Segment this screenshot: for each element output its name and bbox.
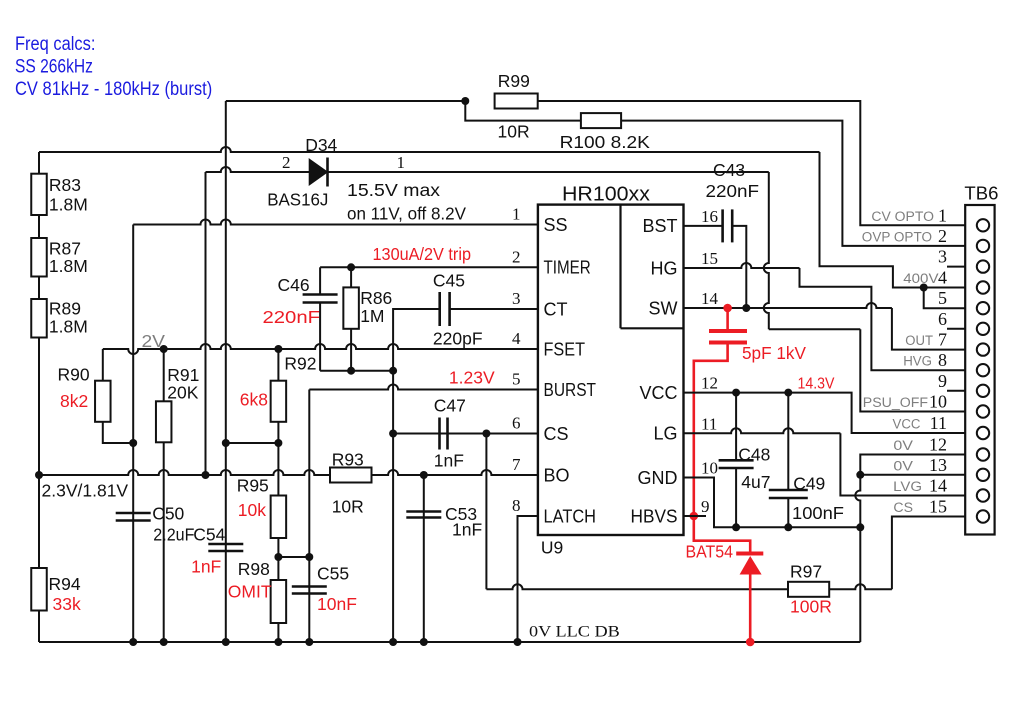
terminal TB6 pin 2 circle (977, 240, 989, 252)
svg-text:1: 1 (397, 153, 406, 172)
wire D34 cathode to right (328, 171, 769, 173)
junction C47 right (482, 430, 490, 438)
net label CV OPTO at TB6 pin 1 (gray) (871, 209, 934, 224)
terminal TB6 pin 3 number (938, 247, 947, 267)
pin label LATCH (pin 8) (544, 506, 597, 526)
junction 0V pins 12-13 (856, 471, 864, 479)
net label 0V at TB6 pin 13 (gray) (893, 458, 913, 473)
wire BAT54 anode to 0V rail (749, 575, 752, 643)
wire C47 left column to 0V rail (392, 434, 394, 643)
wire C46/R86/C45 bottom rail (320, 370, 393, 372)
svg-text:220nF: 220nF (706, 181, 760, 201)
wire R92 bottom to junction (277, 422, 279, 443)
svg-text:LATCH: LATCH (544, 506, 597, 526)
wire C48 bottom leg (735, 468, 737, 527)
svg-text:13: 13 (929, 455, 947, 475)
wire R86 top stub (350, 267, 352, 287)
wire R90 top leg (102, 349, 104, 381)
capacitor C43 (723, 209, 733, 242)
note CV frequency (blue) (15, 79, 212, 100)
svg-text:11: 11 (930, 413, 947, 433)
svg-text:U9: U9 (541, 538, 563, 558)
wire C46 bottom vertical (319, 303, 321, 371)
wire C53 vertical (423, 475, 425, 642)
label R90 (58, 365, 90, 385)
svg-text:BO: BO (544, 465, 570, 485)
svg-text:10R: 10R (332, 497, 364, 517)
svg-text:15.5V max: 15.5V max (347, 180, 440, 200)
terminal TB6 pin 12 number (929, 435, 947, 455)
value R87 1.8M (49, 256, 88, 276)
value R99 10R (498, 122, 530, 142)
svg-text:2: 2 (938, 226, 947, 246)
wire C49 bottom leg (787, 498, 789, 527)
svg-text:R83: R83 (49, 175, 81, 195)
wire R90 bottom leg to SS net (103, 422, 133, 443)
svg-text:1: 1 (512, 205, 521, 224)
note freq calcs (blue) (15, 34, 95, 55)
terminal TB6 pin 1 circle (977, 219, 989, 231)
svg-text:R94: R94 (49, 574, 81, 594)
wire R99 feed from column (226, 100, 465, 102)
svg-text:14: 14 (701, 289, 719, 308)
value R93 10R (332, 497, 364, 517)
wire 0V TB pins 12-13 column (855, 455, 965, 643)
label C48 (738, 445, 770, 465)
wire TIMER pin 2 (320, 266, 538, 268)
junction ground rail to 0V column (856, 523, 864, 531)
value C53 1nF (452, 520, 482, 540)
terminal TB6 pin 4 number (938, 268, 947, 288)
net label OVP OPTO at TB6 pin 2 (gray) (862, 229, 932, 244)
wire BURST pin 5 (309, 385, 538, 390)
value C50 2.2uF (153, 525, 194, 545)
net label VCC at TB6 pin 11 (gray) (893, 417, 921, 432)
terminal TB6 pin 15 number (929, 497, 947, 517)
terminal TB6 pin 1 number (938, 205, 947, 225)
pin number 14 (701, 289, 719, 308)
wire R91 bottom to 0V rail (163, 442, 165, 642)
note 130uA/2V trip (red) (373, 244, 472, 264)
pin number 8 (512, 496, 521, 515)
label R93 (332, 450, 364, 470)
label 2V (gray) (142, 331, 166, 351)
svg-text:C47: C47 (434, 396, 466, 416)
wire R99-R100 connector (465, 101, 581, 121)
terminal TB6 pin 14 circle (977, 489, 989, 501)
wire HG pin 15 staircase to HVG (684, 263, 966, 370)
value C47 1nF (434, 451, 464, 471)
svg-text:7: 7 (512, 455, 521, 474)
wire C47 right column down to R97 (485, 434, 487, 590)
svg-text:1nF: 1nF (452, 520, 482, 540)
note 15.5V max (347, 180, 440, 200)
label D34 (305, 135, 337, 155)
capacitor C46 (303, 295, 338, 303)
resistor R92 (271, 381, 287, 422)
svg-text:SS: SS (544, 215, 568, 235)
junction R90 bottom to SS net (129, 439, 137, 447)
svg-text:SS 266kHz: SS 266kHz (15, 57, 93, 78)
pin label CS (pin 6) (544, 424, 569, 444)
svg-text:5: 5 (512, 370, 521, 389)
svg-text:C43: C43 (713, 160, 745, 180)
pin label BO (pin 7) (544, 465, 570, 485)
terminal TB6 pin 5 number (938, 288, 947, 308)
capacitor C53 (406, 512, 441, 518)
junction R99 left node (461, 97, 469, 105)
value C48 4u7 (741, 472, 770, 492)
net label LVG at TB6 pin 14 (gray) (893, 479, 922, 494)
value C54 1nF (red) (191, 557, 221, 577)
wire TB6 pin 3 stub (947, 266, 965, 268)
wire SW pin 14 staircase to OUT (684, 303, 966, 350)
svg-text:8: 8 (938, 350, 947, 370)
wire BO pin 7 rail left segment (39, 470, 330, 475)
capacitor C45 (440, 292, 450, 326)
terminal TB6 pin 5 circle (977, 302, 989, 314)
resistor R97 (788, 582, 829, 597)
value R83 1.8M (49, 195, 88, 215)
junction R92 bottom (274, 439, 282, 447)
svg-text:1.8M: 1.8M (49, 256, 88, 276)
wire R95 bottom to C55 top (278, 556, 309, 558)
label C55 (317, 564, 349, 584)
svg-text:HR100xx: HR100xx (562, 183, 651, 206)
value C43 220nF (706, 181, 760, 201)
terminal TB6 pin 10 number (929, 392, 947, 412)
label U9 (541, 538, 563, 558)
terminal TB6 pin 8 circle (977, 364, 989, 376)
svg-text:10R: 10R (498, 122, 530, 142)
junction R91 top (160, 345, 168, 353)
label R91 (167, 365, 199, 385)
terminal TB6 pin 7 circle (977, 343, 989, 355)
svg-text:OMIT: OMIT (228, 582, 272, 602)
pin label VCC (pin 12) (639, 383, 677, 403)
wire R98 bottom to 0V rail (277, 623, 279, 642)
label BAS16J (267, 190, 328, 210)
svg-text:4: 4 (938, 268, 947, 288)
label R98 (238, 559, 270, 579)
wire PSU_OFF down and into TB6 pin 10 (860, 329, 965, 411)
terminal TB6 pin 6 circle (977, 323, 989, 335)
svg-text:2: 2 (282, 153, 291, 172)
wire VCC pin 12 to TB6 VCC (684, 393, 966, 433)
pin number 6 (512, 414, 521, 433)
label C54 (193, 525, 225, 545)
wire R98 top leg (277, 557, 279, 580)
svg-text:CS: CS (544, 424, 569, 444)
label TB6 (964, 184, 998, 204)
junction R86 bottom (347, 367, 355, 375)
svg-text:C49: C49 (793, 474, 825, 494)
label C43 (713, 160, 745, 180)
svg-text:CV 81kHz - 180kHz (burst): CV 81kHz - 180kHz (burst) (15, 79, 212, 100)
svg-text:D34: D34 (305, 135, 337, 155)
pin label GND (pin 10) (638, 468, 678, 488)
svg-text:R86: R86 (360, 288, 392, 308)
terminal TB6 pin 14 number (929, 476, 947, 496)
value 5pF 1kV (red) (742, 343, 806, 363)
svg-text:1nF: 1nF (434, 451, 464, 471)
wire C49 top leg (787, 393, 789, 490)
pin label HG (pin 15) (651, 258, 678, 278)
wire R95 bottom to junction (277, 538, 279, 557)
pin number 9 (701, 497, 710, 516)
pin number 5 (512, 370, 521, 389)
wire D34 cathode vertical down, hops HG and SW (764, 172, 769, 329)
svg-text:BAT54: BAT54 (686, 542, 734, 562)
label C53 (445, 504, 477, 524)
label 2.3V/1.81V (42, 481, 129, 501)
svg-text:FSET: FSET (544, 339, 586, 359)
value C46 220nF (red) (263, 307, 321, 327)
svg-text:6: 6 (938, 309, 947, 329)
svg-text:8: 8 (512, 496, 521, 515)
wire CT pin 3 to C45 (450, 308, 538, 310)
svg-text:3: 3 (512, 289, 521, 308)
wire 400V branch to TB6 pin 5 (924, 288, 966, 309)
diode BAT54 (red) (736, 554, 763, 575)
wire C45 left to bottom rail (393, 309, 440, 371)
svg-text:CV OPTO: CV OPTO (871, 209, 934, 224)
svg-text:1nF: 1nF (191, 557, 221, 577)
wire BURST down to R95 bottom node (308, 390, 310, 558)
svg-text:VCC: VCC (893, 417, 921, 432)
label R97 (790, 562, 822, 582)
pin label TIMER (pin 2) (544, 258, 591, 278)
svg-text:Freq calcs:: Freq calcs: (15, 34, 95, 55)
label C49 (793, 474, 825, 494)
value R98 OMIT (red) (228, 582, 272, 602)
wire R100 to OVP OPTO (621, 121, 965, 246)
wire C55 vertical (308, 557, 310, 642)
svg-text:33k: 33k (53, 594, 81, 614)
net label 0V at TB6 pin 12 (gray) (893, 438, 913, 453)
svg-text:12: 12 (701, 374, 718, 393)
wire R86 bottom vertical (350, 329, 352, 371)
junction C45 branch bottom (389, 367, 397, 375)
svg-text:3: 3 (938, 247, 947, 267)
wire D34 anode from vertical (206, 167, 310, 172)
value R91 20K (167, 383, 198, 403)
wire 0V LLC DB bottom rail (39, 641, 860, 643)
net label HVG at TB6 pin 8 (gray) (903, 354, 932, 369)
wire SS pin 1 (133, 220, 538, 225)
pin number 10 (701, 459, 718, 478)
pin label CT (pin 3) (544, 299, 568, 319)
junction C47 left (389, 430, 397, 438)
svg-text:BAS16J: BAS16J (267, 190, 328, 210)
junction 0V rail at C54 (222, 638, 230, 646)
wire R91 top leg (163, 349, 165, 401)
svg-text:R95: R95 (237, 476, 269, 496)
svg-text:4: 4 (512, 329, 521, 348)
pin label HBVS (pin 9) (631, 506, 678, 526)
terminal TB6 pin 9 circle (977, 385, 989, 397)
svg-text:BST: BST (642, 216, 677, 236)
op-amp/controller U9 HR100xx box (538, 205, 684, 535)
svg-text:14.3V: 14.3V (798, 376, 836, 393)
resistor R83 (31, 174, 47, 215)
svg-text:C54: C54 (193, 525, 225, 545)
wire 400V staircase down to TB6 pin 4 (820, 152, 966, 288)
junction 0V rail at R91 (160, 638, 168, 646)
value R89 1.8M (49, 317, 88, 337)
value R90 8k2 (red) (60, 391, 88, 411)
svg-text:2.3V/1.81V: 2.3V/1.81V (42, 481, 129, 501)
terminal TB6 pin 8 number (938, 350, 947, 370)
label R94 (49, 574, 81, 594)
svg-text:CS: CS (893, 500, 913, 515)
svg-text:R93: R93 (332, 450, 364, 470)
junction C48 top (732, 389, 740, 397)
terminal TB6 pin 10 circle (977, 405, 989, 417)
wire R99 to CV OPTO (538, 101, 966, 225)
svg-text:PSU_OFF: PSU_OFF (863, 395, 928, 410)
label R92 (284, 354, 316, 374)
svg-text:R89: R89 (49, 299, 81, 319)
junction C48 bottom (732, 523, 740, 531)
wire C54 column (225, 443, 227, 642)
note 14.3V (red) (798, 376, 836, 393)
svg-text:C45: C45 (433, 271, 465, 291)
capacitor C50 (116, 513, 151, 521)
value C45 220pF (433, 329, 483, 349)
wire CS pin 6 (393, 433, 538, 435)
wire R97 left feed (486, 584, 788, 589)
capacitor 5pF 1kV (red) (709, 331, 747, 343)
pin number 1 (512, 205, 521, 224)
junction SW red tap (723, 304, 732, 313)
svg-text:R97: R97 (790, 562, 822, 582)
wire GND pin 10 to ground rail (684, 478, 861, 528)
svg-text:LG: LG (653, 424, 677, 444)
wire C43 to SW (732, 226, 746, 308)
svg-text:9: 9 (701, 497, 710, 516)
svg-text:R99: R99 (498, 71, 530, 91)
junction R99 column mid node (222, 439, 230, 447)
svg-text:R90: R90 (58, 365, 90, 385)
pin number 4 (512, 329, 521, 348)
resistor R93 (330, 468, 372, 483)
wire R97 to TB6 CS pin 15 (829, 517, 965, 590)
pin number 2 (512, 247, 521, 266)
terminal TB6 pin 9 number (938, 371, 947, 391)
terminal block TB6 body (965, 205, 994, 535)
label C45 (433, 271, 465, 291)
wire TB6 pin 6 stub (947, 328, 965, 330)
junction left rail / 2.3V rail (35, 471, 43, 479)
wire R92 top leg (277, 349, 279, 381)
junction C49 bottom (784, 523, 792, 531)
pin number 16 (701, 207, 718, 226)
junction HBVS red node (690, 512, 699, 521)
label HR100xx (562, 183, 651, 206)
svg-text:5: 5 (938, 288, 947, 308)
wire LATCH pin 8 (518, 516, 538, 642)
wire D34 anode vertical down to BO rail (205, 172, 207, 475)
svg-text:C55: C55 (317, 564, 349, 584)
svg-text:R98: R98 (238, 559, 270, 579)
svg-text:100nF: 100nF (792, 503, 844, 523)
svg-text:on 11V, off 8.2V: on 11V, off 8.2V (347, 204, 466, 224)
svg-text:100R: 100R (790, 597, 832, 617)
svg-text:10: 10 (929, 392, 947, 412)
capacitor C54 (208, 544, 243, 551)
junction C43 to SW (742, 304, 750, 312)
svg-text:OUT: OUT (905, 333, 933, 348)
value R92 6k8 (red) (240, 390, 268, 410)
capacitor C49 (769, 490, 808, 498)
pin label BST (pin 16) (642, 216, 677, 236)
svg-text:LVG: LVG (893, 479, 922, 494)
label C47 (434, 396, 466, 416)
label 0V LLC DB (529, 624, 620, 641)
wire D34 net over to PSU_OFF column (769, 328, 861, 330)
label R87 (49, 239, 81, 259)
resistor R99 (495, 94, 538, 109)
svg-text:0V: 0V (893, 438, 913, 453)
svg-text:14: 14 (929, 476, 947, 496)
junction C49 top (784, 389, 792, 397)
pin label SS (pin 1) (544, 215, 568, 235)
terminal TB6 pin 13 number (929, 455, 947, 475)
label R83 (49, 175, 81, 195)
pin label FSET (pin 4) (544, 339, 586, 359)
label R89 (49, 299, 81, 319)
wire C46 top connector (319, 267, 321, 294)
label R100 8.2K (560, 132, 651, 152)
svg-text:2: 2 (512, 247, 521, 266)
svg-text:9: 9 (938, 371, 947, 391)
resistor R98 (271, 580, 287, 623)
terminal TB6 pin 2 number (938, 226, 947, 246)
junction D34 anode to BO rail (202, 471, 210, 479)
svg-text:BURST: BURST (544, 380, 597, 400)
wire TB6 pin 9 stub (947, 390, 965, 392)
resistor R94 (31, 568, 47, 611)
wire SS vertical down through C50 (132, 225, 134, 643)
pin label SW (pin 14) (649, 298, 678, 318)
svg-text:R92: R92 (284, 354, 316, 374)
terminal TB6 pin 12 circle (977, 448, 989, 460)
svg-text:C46: C46 (278, 275, 310, 295)
net label PSU_OFF at TB6 pin 10 (gray) (863, 395, 928, 410)
terminal TB6 pin 3 circle (977, 260, 989, 272)
svg-text:5pF 1kV: 5pF 1kV (742, 343, 806, 363)
note SS frequency (blue) (15, 57, 93, 78)
junction 0V rail at C55 (305, 638, 313, 646)
svg-text:16: 16 (701, 207, 718, 226)
svg-text:1.23V: 1.23V (449, 368, 495, 388)
svg-text:400V: 400V (903, 271, 938, 286)
svg-text:220pF: 220pF (433, 329, 483, 349)
wire BO pin 7 rail right segment (372, 470, 538, 475)
svg-text:OVP OPTO: OVP OPTO (862, 229, 932, 244)
svg-text:11: 11 (701, 414, 717, 433)
svg-text:7: 7 (938, 330, 947, 350)
svg-text:0V LLC DB: 0V LLC DB (529, 624, 620, 641)
label R95 (237, 476, 269, 496)
resistor R87 (31, 238, 47, 277)
value R94 33k (red) (53, 594, 81, 614)
svg-text:130uA/2V trip: 130uA/2V trip (373, 244, 472, 264)
svg-text:8k2: 8k2 (60, 391, 88, 411)
pin label LG (pin 11) (653, 424, 677, 444)
terminal TB6 pin 15 circle (977, 510, 989, 522)
